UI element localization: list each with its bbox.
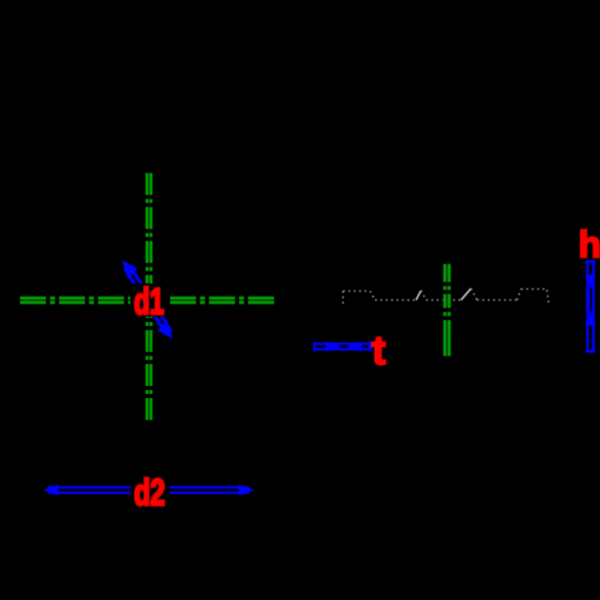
top-right plateau — [521, 288, 546, 290]
centerline vertical (front view), lower span — [145, 317, 153, 420]
arrowhead t right — [347, 342, 362, 352]
step up — [517, 289, 521, 300]
dimension d2 (outer diameter, bottom) — [43, 485, 255, 496]
baseline right — [477, 299, 517, 301]
arrowhead t left — [326, 342, 341, 352]
side view profile (hidden/dotted outline) — [343, 289, 549, 307]
centerline horizontal (front view), right span — [168, 296, 274, 305]
end tick h top — [586, 260, 596, 263]
centerline vertical (side view) — [443, 264, 452, 356]
dimension d1 (diagonal diameter line) — [122, 260, 173, 339]
centerline vertical (front view), upper span — [145, 173, 153, 283]
right edge — [547, 290, 549, 306]
centerline horizontal (front view), left span — [20, 296, 131, 305]
text break d1 — [130, 283, 168, 317]
right tooth peak — [461, 289, 471, 301]
svg-text:h: h — [579, 224, 600, 265]
end tick h bottom — [586, 350, 596, 353]
baseline left — [375, 299, 416, 301]
dimension h (height, right) — [585, 262, 596, 352]
extension tick t right — [369, 342, 372, 352]
left edge — [342, 291, 344, 306]
arrowhead d1 lower — [158, 320, 174, 340]
top-left plateau — [343, 290, 370, 292]
svg-text:d1: d1 — [134, 281, 164, 322]
arrowhead d2 right — [239, 485, 255, 496]
step down — [370, 291, 375, 300]
svg-text:t: t — [372, 327, 386, 373]
text break d2 — [130, 474, 170, 508]
dimension t (thickness) — [315, 342, 371, 352]
arrowhead h upper — [585, 275, 596, 290]
svg-text:d2: d2 — [134, 472, 165, 513]
arrowhead d2 left — [43, 485, 58, 496]
arrowhead d1 upper — [122, 260, 138, 280]
extension tick t left — [313, 342, 316, 352]
solid bar between h arrow tips — [586, 290, 589, 310]
arrowhead h lower — [585, 310, 596, 325]
baseline middle — [426, 299, 461, 301]
left tooth peak — [416, 291, 421, 301]
